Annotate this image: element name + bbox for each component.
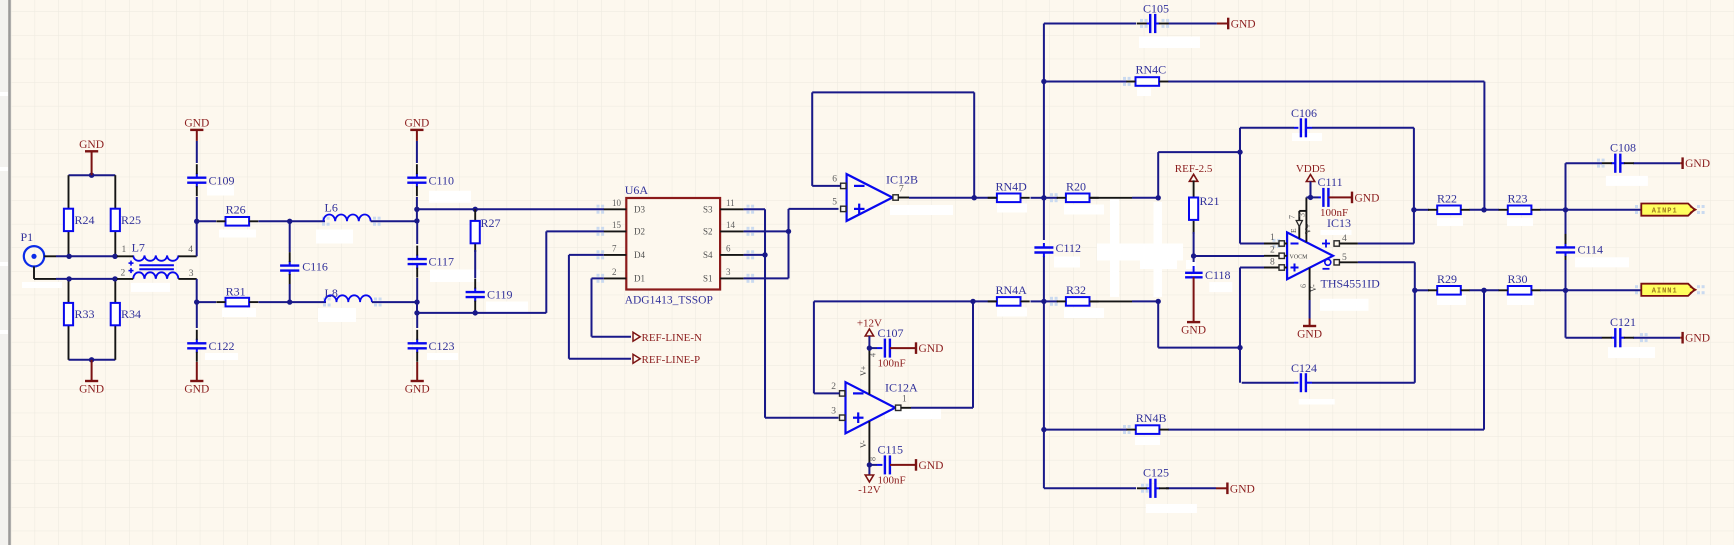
- resistor R25: [111, 209, 141, 231]
- wire node B to R31: [197, 301, 216, 303]
- svg-text:D3: D3: [634, 205, 645, 215]
- junction VDD node: [1308, 195, 1313, 200]
- wire L7 pin3 to node B: [196, 279, 198, 302]
- junction IC12A out node: [970, 299, 975, 304]
- resistor R21: [1189, 194, 1220, 220]
- junction jog2 bottom: [414, 310, 419, 315]
- wire D1 to REF-LINE-N: [592, 278, 632, 336]
- transformer L7: [117, 241, 197, 279]
- IC12A pin 3 (+): [831, 407, 845, 421]
- svg-text:1: 1: [122, 245, 127, 255]
- resistor R24 pins: [68, 175, 70, 256]
- ground: [1340, 192, 1379, 205]
- connector P1: [21, 230, 57, 279]
- junction L8 node: [414, 299, 419, 304]
- ground: [1297, 319, 1322, 341]
- wire out- wire: [1358, 261, 1415, 263]
- capacitor C121: [1602, 315, 1636, 347]
- svg-text:C110: C110: [429, 174, 455, 188]
- ground: [1216, 483, 1255, 496]
- svg-text:C106: C106: [1291, 106, 1317, 120]
- svg-text:C111: C111: [1318, 175, 1343, 189]
- junction jog top: [414, 207, 419, 212]
- op-amp IC12A: [846, 381, 919, 434]
- svg-text:GND: GND: [79, 139, 104, 151]
- junction P out node: [1563, 207, 1568, 212]
- capacitor C110: [407, 164, 454, 196]
- svg-text:7: 7: [612, 243, 617, 253]
- capacitor C111: [1318, 175, 1349, 219]
- svg-text:S4: S4: [703, 250, 713, 260]
- resistor R22: [1428, 192, 1470, 215]
- junction C116 bottom: [287, 299, 292, 304]
- resistor R21 pins: [1193, 180, 1195, 234]
- svg-text:5: 5: [1342, 253, 1347, 263]
- net label residue marks: [322, 19, 1705, 493]
- wire C125 wire: [1044, 487, 1216, 489]
- junction bus-P: [1041, 195, 1046, 200]
- junction IC12B out node: [972, 195, 977, 200]
- svg-text:C121: C121: [1610, 315, 1636, 329]
- power +12V: [857, 318, 882, 337]
- svg-text:L8: L8: [325, 286, 338, 300]
- port AINP1: [1641, 204, 1695, 216]
- capacitor C117 chain: [416, 221, 418, 244]
- resistor R27: [471, 216, 501, 243]
- wire C106 wire: [1240, 128, 1414, 244]
- svg-text:REF-2.5: REF-2.5: [1175, 163, 1213, 175]
- svg-text:R27: R27: [481, 216, 501, 230]
- svg-text:C124: C124: [1291, 361, 1317, 375]
- junction VOCM node: [1191, 253, 1196, 258]
- junction INN-R34: [112, 276, 117, 281]
- wire IC12A out: [911, 407, 973, 409]
- capacitor C108: [1602, 141, 1636, 173]
- IC12A pin 1 (out): [896, 395, 912, 411]
- svg-text:C123: C123: [429, 339, 455, 353]
- wire top bias rail: [69, 174, 116, 176]
- wire jog: [416, 209, 418, 221]
- resistor R27 pins: [474, 209, 476, 252]
- wire pin8 wire: [1240, 267, 1264, 269]
- svg-text:C112: C112: [1056, 241, 1082, 255]
- wire N2 link: [1158, 301, 1240, 347]
- wire RN4C line: [1044, 82, 1485, 210]
- junction node P2: [1156, 195, 1161, 200]
- svg-text:C107: C107: [878, 326, 904, 340]
- IC13 pin 4 (out+): [1322, 234, 1358, 248]
- svg-text:D1: D1: [634, 274, 645, 284]
- junction node A: [194, 219, 199, 224]
- ground: [404, 117, 429, 140]
- svg-text:6: 6: [726, 243, 731, 253]
- resistor RN4C: [1126, 63, 1168, 86]
- port REF-LINE-P: [633, 354, 700, 366]
- junction R27 top: [473, 207, 478, 212]
- U6A pin 6 (S4): [703, 243, 744, 260]
- pin number 3: [189, 269, 194, 279]
- svg-text:V+: V+: [1304, 223, 1313, 234]
- IC12A pin 2 (-): [831, 382, 845, 396]
- ground: [1181, 277, 1206, 336]
- wire IC12A feedback: [814, 301, 973, 407]
- svg-text:R30: R30: [1508, 272, 1528, 286]
- junction mid N: [1481, 288, 1486, 293]
- wire bottom bias rail: [69, 359, 116, 361]
- svg-text:100nF: 100nF: [878, 475, 906, 487]
- designator C106: [1291, 106, 1317, 120]
- wire S4 stub: [744, 254, 765, 256]
- ground: [1680, 157, 1710, 170]
- svg-text:GND: GND: [1181, 325, 1206, 337]
- wire node A to R26: [197, 220, 216, 222]
- svg-text:GND: GND: [1231, 19, 1256, 31]
- wire fb vertical top: [1239, 128, 1241, 244]
- capacitor C114: [1556, 234, 1603, 266]
- junction jog bottom: [414, 218, 419, 223]
- svg-text:2: 2: [1270, 246, 1275, 256]
- wire L7 pin4 to node A: [196, 221, 198, 256]
- ground: [1217, 18, 1256, 31]
- capacitor C122: [187, 330, 234, 362]
- capacitor C105: [1137, 2, 1169, 34]
- wire VOCM wire: [1194, 255, 1264, 257]
- svg-text:1: 1: [1270, 233, 1275, 243]
- wire R32 to node N2: [1090, 300, 1159, 302]
- svg-text:2: 2: [831, 382, 836, 392]
- svg-text:U6A: U6A: [625, 183, 649, 197]
- IC13 pin 1 (-): [1264, 233, 1287, 246]
- svg-text:R26: R26: [226, 203, 246, 217]
- wire P2 link: [1158, 152, 1240, 198]
- capacitor C109 chain: [196, 141, 198, 163]
- U6A pin 10 (D3): [604, 198, 646, 215]
- wire IC12B feedback: [812, 92, 974, 197]
- capacitor C117: [408, 246, 454, 278]
- svg-text:3: 3: [189, 269, 194, 279]
- svg-text:GND: GND: [184, 117, 209, 129]
- wire S2/S1 to IC12B+: [744, 209, 839, 232]
- capacitor C109: [187, 164, 234, 196]
- U6A pin 7 (D4): [604, 243, 646, 260]
- IC12B pin 5 (+): [832, 198, 846, 212]
- resistor R31: [216, 285, 258, 307]
- fully-differential amp IC13 THS4551ID: [1287, 216, 1380, 291]
- svg-text:C109: C109: [209, 174, 235, 188]
- svg-text:R32: R32: [1066, 283, 1086, 297]
- svg-text:4: 4: [1342, 234, 1347, 244]
- wire C116 bot to L8: [290, 301, 326, 303]
- wire N line R32: [1044, 300, 1058, 302]
- svg-text:VDD5: VDD5: [1296, 163, 1326, 175]
- wire RN4A to bus N: [1031, 300, 1044, 302]
- designator C124: [1291, 361, 1317, 375]
- resistor R34: [111, 303, 141, 325]
- window edge strip: [0, 0, 10, 545]
- svg-text:100nF: 100nF: [878, 358, 906, 370]
- svg-text:RN4A: RN4A: [996, 283, 1028, 297]
- svg-text:AINP1: AINP1: [1652, 207, 1678, 215]
- svg-text:L6: L6: [325, 201, 338, 215]
- junction bus-RN4B: [1041, 427, 1046, 432]
- U6A pin 3 (S1): [703, 267, 744, 284]
- inductor L8: [325, 286, 372, 302]
- IC12A power pin 8 (V-): [859, 421, 878, 465]
- svg-text:S3: S3: [703, 205, 713, 215]
- svg-text:7: 7: [899, 185, 904, 195]
- junction bias top: [89, 173, 94, 178]
- svg-text:V-: V-: [859, 440, 868, 448]
- wire C105 wire: [1044, 23, 1217, 25]
- wire VDD link: [1306, 196, 1318, 198]
- svg-text:10: 10: [612, 198, 622, 208]
- power -12V: [858, 475, 881, 496]
- ground: [184, 362, 209, 396]
- svg-text:GND: GND: [1230, 483, 1255, 495]
- wire N out line: [1414, 289, 1429, 291]
- wire N line to RN4A: [814, 300, 997, 302]
- svg-text:100nF: 100nF: [1320, 207, 1348, 219]
- wire S1 link: [744, 231, 789, 278]
- svg-text:GND: GND: [919, 343, 944, 355]
- svg-text:C116: C116: [302, 260, 328, 274]
- svg-text:R34: R34: [121, 307, 141, 321]
- svg-text:4: 4: [188, 245, 193, 255]
- svg-text:6: 6: [832, 175, 837, 185]
- pin number 1: [122, 245, 127, 255]
- svg-text:7: 7: [1288, 215, 1297, 219]
- resistor R29: [1428, 272, 1470, 295]
- resistor R32: [1057, 283, 1099, 306]
- svg-text:THS4551ID: THS4551ID: [1321, 277, 1381, 291]
- wire P line R20: [1044, 197, 1058, 199]
- resistor R26: [216, 203, 258, 226]
- junction S2 tap: [786, 229, 791, 234]
- junction out- tap: [1412, 288, 1417, 293]
- svg-text:GND: GND: [1355, 192, 1380, 204]
- junction B top link: [1237, 149, 1242, 154]
- svg-text:GND: GND: [919, 460, 944, 472]
- IC12B pin 7 (out): [893, 185, 909, 201]
- IC12A power pin 4 (V+): [859, 348, 878, 394]
- wire line to D3: [417, 208, 604, 210]
- resistor R23: [1499, 192, 1541, 215]
- IC13 pin 5 (out-): [1323, 253, 1358, 269]
- svg-text:GND: GND: [79, 384, 104, 396]
- svg-text:C122: C122: [209, 339, 235, 353]
- port REF-LINE-N: [633, 332, 702, 344]
- svg-text:GND: GND: [404, 117, 429, 129]
- capacitor C116 chain: [289, 221, 291, 252]
- pin number 4: [188, 245, 193, 255]
- junction S4 tap: [762, 252, 767, 257]
- ground: [79, 139, 104, 175]
- wire bus vertical: [1043, 24, 1045, 489]
- svg-text:IC12A: IC12A: [885, 381, 918, 395]
- resistor RN4D: [988, 180, 1030, 203]
- junction bus-N: [1041, 299, 1046, 304]
- svg-text:RN4B: RN4B: [1136, 411, 1167, 425]
- capacitor C123 chain: [416, 313, 418, 328]
- svg-text:2: 2: [121, 269, 126, 279]
- svg-text:1: 1: [902, 395, 907, 405]
- wire R23 to port: [1540, 209, 1641, 211]
- svg-text:R31: R31: [226, 285, 246, 299]
- wire C116 top to L6: [290, 220, 325, 222]
- svg-text:D4: D4: [634, 250, 645, 260]
- svg-text:C125: C125: [1143, 466, 1169, 480]
- capacitor C125: [1137, 466, 1169, 498]
- ground: [184, 117, 209, 140]
- svg-text:C114: C114: [1578, 243, 1604, 257]
- svg-text:15: 15: [612, 220, 622, 230]
- ground: [895, 342, 943, 355]
- inductor L6: [323, 201, 370, 222]
- wire line to D2: [417, 231, 604, 313]
- svg-text:R33: R33: [75, 307, 95, 321]
- wire C124 wire: [1242, 262, 1415, 382]
- svg-text:V-: V-: [1309, 284, 1318, 292]
- wire fb vertical bottom: [1239, 268, 1241, 383]
- svg-text:C117: C117: [429, 255, 455, 269]
- svg-text:P1: P1: [21, 230, 34, 244]
- IC13 pin 8 (+): [1264, 258, 1287, 271]
- analog switch U6A ADG1413: [625, 183, 720, 307]
- wire S3/S4 to IC12A+: [744, 209, 839, 417]
- capacitor C112: [1034, 241, 1081, 257]
- resistor R30: [1499, 272, 1541, 295]
- ground: [405, 362, 430, 396]
- svg-text:GND: GND: [1685, 333, 1710, 345]
- svg-text:R22: R22: [1437, 192, 1457, 206]
- op-amp IC12B: [847, 173, 918, 221]
- resistor RN4A: [988, 283, 1030, 306]
- svg-text:GND: GND: [1685, 158, 1710, 170]
- svg-text:GND: GND: [1297, 329, 1322, 341]
- junction bias bottom: [89, 357, 94, 362]
- resistor R25 pins: [114, 175, 116, 256]
- junction C119 bottom: [473, 310, 478, 315]
- svg-text:S1: S1: [703, 274, 713, 284]
- IC13 pin 6 (V-): [1299, 268, 1318, 300]
- capacitor C123: [408, 330, 455, 362]
- svg-text:ADG1413_TSSOP: ADG1413_TSSOP: [625, 295, 713, 307]
- svg-text:RN4D: RN4D: [996, 180, 1028, 194]
- svg-text:C108: C108: [1610, 141, 1636, 155]
- wire INP rail: [56, 255, 118, 257]
- junction node N2: [1156, 299, 1161, 304]
- svg-text:GND: GND: [184, 384, 209, 396]
- svg-text:C115: C115: [878, 443, 904, 457]
- capacitor C115: [869, 443, 905, 487]
- svg-text:GND: GND: [405, 384, 430, 396]
- svg-text:VOCM: VOCM: [1289, 255, 1308, 261]
- pin number 2: [121, 269, 126, 279]
- svg-text:REF-LINE-P: REF-LINE-P: [642, 354, 701, 366]
- svg-text:C119: C119: [487, 288, 513, 302]
- svg-text:11: 11: [726, 198, 735, 208]
- svg-text:R25: R25: [121, 213, 141, 227]
- svg-text:C118: C118: [1205, 268, 1231, 282]
- svg-text:V+: V+: [859, 365, 868, 376]
- U6A pin 15 (D2): [604, 220, 645, 237]
- capacitor C122 chain: [196, 302, 198, 328]
- port AINN1: [1641, 284, 1695, 296]
- resistor R34 pins: [114, 279, 116, 360]
- wire C108 wire: [1566, 163, 1681, 210]
- capacitor C116: [280, 252, 328, 284]
- ground: [895, 459, 943, 472]
- svg-text:4: 4: [869, 353, 878, 357]
- junction V- node: [867, 462, 872, 467]
- junction V+ node: [867, 345, 872, 350]
- wire P out line: [1414, 209, 1429, 211]
- junction B bottom link: [1237, 345, 1242, 350]
- wire RN4B line: [1044, 290, 1484, 429]
- wire R30 to port: [1540, 289, 1641, 291]
- resistor RN4B: [1127, 411, 1169, 434]
- wire IC12B out: [909, 197, 997, 199]
- junction INP-R24: [66, 254, 71, 259]
- IC13 pin 2 (VOCM): [1264, 246, 1287, 259]
- wire R22-R23: [1470, 209, 1500, 211]
- wire R26 to C116 top: [259, 220, 290, 222]
- svg-text:AINN1: AINN1: [1652, 288, 1678, 296]
- svg-text:D2: D2: [634, 227, 645, 237]
- wire C121 wire: [1566, 290, 1681, 337]
- capacitor C110 chain: [416, 141, 418, 163]
- erased value patches: [207, 186, 234, 196]
- capacitor C118: [1185, 256, 1230, 282]
- svg-text:6: 6: [1299, 284, 1308, 288]
- svg-text:2: 2: [612, 267, 617, 277]
- svg-text:R20: R20: [1066, 180, 1086, 194]
- U6A pin 11 (S3): [703, 198, 744, 215]
- svg-text:3: 3: [1298, 213, 1307, 217]
- wire out+ wire: [1358, 243, 1414, 245]
- wire RN4D to bus P: [1031, 197, 1044, 199]
- svg-text:14: 14: [726, 220, 736, 230]
- resistor R20: [1057, 180, 1099, 203]
- capacitor C107: [869, 326, 905, 370]
- svg-text:REF-LINE-N: REF-LINE-N: [642, 332, 703, 344]
- svg-text:3: 3: [726, 267, 731, 277]
- wire jog2: [416, 302, 418, 313]
- U6A pin 2 (D1): [604, 267, 645, 284]
- junction INN-R33: [66, 276, 71, 281]
- power VDD5: [1296, 163, 1326, 182]
- resistor R33 pins: [68, 279, 70, 360]
- junction node B: [194, 299, 199, 304]
- junction INP-R25: [112, 254, 117, 259]
- svg-text:L7: L7: [132, 241, 145, 255]
- wire pin1 wire: [1240, 243, 1264, 245]
- resistor R24: [64, 209, 95, 231]
- svg-text:C105: C105: [1143, 2, 1169, 16]
- wire INN rail: [56, 278, 118, 280]
- ground: [79, 360, 104, 396]
- capacitor C119 chain: [474, 250, 476, 278]
- resistor R33: [64, 303, 95, 325]
- wire R31 to C116 bottom: [259, 301, 290, 303]
- wire R20 to node P2: [1090, 197, 1159, 199]
- capacitor C114 chain: [1565, 210, 1567, 240]
- IC12B pin 6 (-): [832, 175, 846, 189]
- svg-text:E: E: [1289, 228, 1298, 233]
- capacitor C119: [466, 279, 513, 311]
- power REF-2.5: [1175, 163, 1213, 182]
- wire D4 to REF-LINE-P: [569, 255, 631, 359]
